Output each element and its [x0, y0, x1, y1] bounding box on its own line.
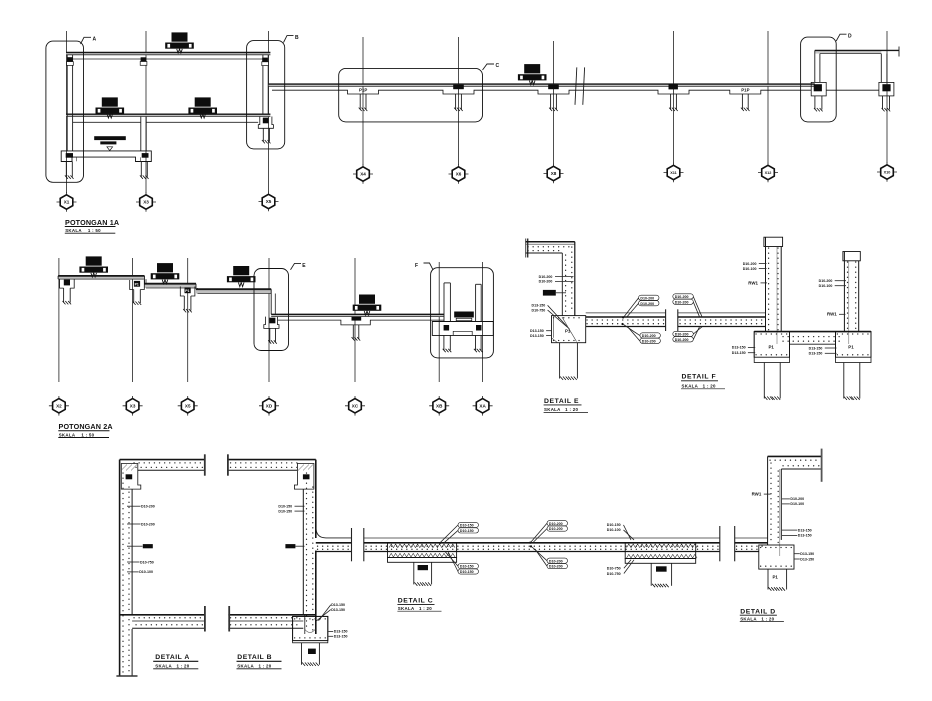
detail E slab left part [586, 313, 666, 327]
upper right beam [815, 47, 899, 57]
detail B vertical wall [303, 460, 316, 634]
SECTION: DETAIL A B [116, 454, 351, 676]
svg-text:SKALA 1 : 20: SKALA 1 : 20 [155, 663, 189, 668]
svg-text:B: B [295, 35, 299, 41]
column stub X6 [453, 85, 464, 111]
grid line XD [268, 258, 270, 382]
column below X3 [141, 117, 146, 151]
detail F footing band [754, 332, 871, 345]
stadium callout LL pair [624, 325, 661, 344]
detail F wall1 labels [743, 262, 767, 285]
callout region E [254, 263, 306, 351]
hexagon X1 [57, 192, 77, 212]
svg-text:D10-100: D10-100 [743, 267, 757, 271]
joint pedestal stub at XD beam4 [264, 317, 279, 344]
column stub X8 [548, 85, 559, 111]
slab break marks right [720, 526, 735, 561]
svg-text:D10-200: D10-200 [549, 559, 563, 563]
svg-text:P1: P1 [773, 574, 779, 579]
detail B corner joint [294, 464, 314, 490]
svg-text:D10-200: D10-200 [790, 497, 804, 501]
detail B right slab stub [316, 528, 352, 552]
detail E labels D13-150 D10-750 [532, 304, 570, 329]
machine M1 on top beam [165, 32, 194, 53]
svg-text:D10-200: D10-200 [549, 565, 563, 569]
callout region A [46, 37, 97, 183]
svg-text:DETAIL B: DETAIL B [237, 654, 272, 661]
svg-text:D13-150: D13-150 [732, 351, 746, 355]
svg-text:D10-200: D10-200 [675, 295, 689, 299]
column cap 2 P1 [130, 280, 145, 305]
SECTION: POTONGAN 1A [46, 31, 899, 233]
grid line X1 [66, 31, 68, 193]
svg-text:X3: X3 [130, 404, 136, 409]
svg-text:POTONGAN 1A: POTONGAN 1A [65, 218, 119, 227]
F frame right column [476, 284, 482, 321]
svg-text:DETAIL D: DETAIL D [740, 608, 776, 615]
stadium callouts C upper-left [439, 522, 478, 544]
svg-text:D13-150: D13-150 [800, 557, 814, 561]
svg-text:D10-200: D10-200 [141, 505, 155, 509]
svg-text:SKALA 1 : 20: SKALA 1 : 20 [398, 606, 432, 611]
svg-text:D13-150: D13-150 [809, 346, 823, 350]
hexagon XD [259, 396, 279, 416]
svg-text:D13-150: D13-150 [334, 635, 348, 639]
callout region D [801, 33, 852, 122]
svg-text:P1: P1 [135, 283, 139, 287]
title DETAIL F [681, 374, 725, 389]
svg-text:D10-200: D10-200 [675, 333, 689, 337]
beam soffit between D columns [826, 89, 879, 91]
detail A black label [127, 544, 153, 548]
svg-text:X3: X3 [143, 200, 149, 205]
detail A vertical wall [116, 460, 137, 676]
grid line X10 [886, 31, 888, 163]
beam 1 [58, 276, 144, 279]
machine M3 on mid beam [188, 97, 217, 118]
joint, pedestal and stub at X5 mid beam [258, 117, 273, 144]
svg-text:XD: XD [266, 404, 273, 409]
detail D top wall [768, 449, 822, 482]
svg-text:D10-200: D10-200 [549, 522, 563, 526]
grid line X5 [268, 31, 270, 193]
mid beam soffit line left room [73, 121, 141, 123]
machine bar in F frame [454, 312, 474, 321]
stub under panel 2 [651, 563, 671, 587]
hexagon X4 [353, 164, 373, 184]
column at X5 [262, 55, 269, 114]
detail A label D10-750 [127, 560, 154, 564]
svg-text:SKALA 1 : 20: SKALA 1 : 20 [682, 383, 716, 388]
detail E footing P1 [552, 316, 586, 343]
title POTONGAN 2A [58, 422, 112, 438]
svg-text:POTONGAN 2A: POTONGAN 2A [59, 422, 113, 431]
detail F mid labels [809, 346, 837, 355]
svg-text:D10-200: D10-200 [642, 339, 656, 343]
svg-text:X6: X6 [456, 172, 462, 177]
callout region F [415, 263, 493, 358]
stadium callout UL pair [624, 295, 659, 317]
title POTONGAN 1A [65, 218, 119, 233]
grid line X4 [362, 37, 364, 165]
step beam2-beam3 [196, 284, 198, 294]
hexagon X3b [123, 396, 143, 416]
svg-text:X8: X8 [551, 171, 557, 176]
svg-text:A: A [93, 37, 97, 43]
hexagon XA [473, 396, 493, 416]
D column 2 [879, 54, 894, 112]
machine M7 on beam3 [227, 266, 256, 287]
svg-text:SKALA 1 : 50: SKALA 1 : 50 [59, 433, 95, 438]
machine M8 on beam4 [353, 295, 382, 316]
stadium callouts C upper-right [529, 521, 567, 544]
detail F wall2 labels [819, 279, 846, 317]
detail B footing stub [302, 643, 320, 666]
svg-text:D10-200: D10-200 [819, 279, 833, 283]
detail E footing stub [560, 343, 578, 380]
callout region C [339, 63, 500, 122]
hexagon X3 [136, 192, 156, 212]
section break marks [575, 67, 585, 104]
detail A label D10-200 a [127, 505, 155, 509]
beam 3 [196, 289, 271, 293]
footing band bottom left [61, 151, 151, 162]
title DETAIL E [544, 398, 588, 413]
svg-text:DETAIL C: DETAIL C [398, 598, 434, 605]
column cap 3 P1 [180, 287, 195, 313]
column at X1 [67, 55, 74, 151]
hexagon X5 [259, 192, 279, 212]
svg-text:P1: P1 [185, 289, 189, 293]
column stub P1P right [741, 88, 750, 111]
detail B labels D10-150 [278, 505, 304, 514]
grid line X11 [673, 31, 675, 164]
joint square at X3 top beam [141, 57, 147, 63]
detail F pad 2 [836, 332, 872, 363]
svg-text:XA: XA [479, 404, 486, 409]
svg-text:F: F [415, 263, 418, 269]
detail E labels D13-150 pair [530, 329, 552, 338]
svg-text:D13-150: D13-150 [809, 352, 823, 356]
grid line X8 [553, 41, 555, 165]
grid line XA [482, 262, 484, 382]
mid beam soffit line right [146, 121, 258, 123]
svg-text:DETAIL A: DETAIL A [155, 654, 189, 661]
svg-text:D10-750: D10-750 [607, 572, 621, 576]
detail A label D10-200 b [127, 522, 155, 526]
column cap 1 [60, 279, 75, 304]
stub under footing left [65, 162, 74, 179]
svg-text:DETAIL F: DETAIL F [682, 374, 717, 381]
grid line X5b [187, 258, 189, 382]
detail A corner joint [121, 464, 141, 490]
title DETAIL D [740, 608, 784, 621]
stadium callout LR pair [673, 327, 702, 342]
svg-text:P1P: P1P [359, 88, 367, 93]
hexagon X5b [178, 396, 198, 416]
beam4 soffit with notch at XC [278, 320, 444, 325]
hexagon X11 [664, 163, 684, 183]
svg-text:D10-750: D10-750 [532, 308, 546, 312]
svg-text:D10-750: D10-750 [140, 560, 154, 564]
D column 1 [811, 50, 826, 111]
detail F wall 1 [764, 237, 783, 344]
detail B footing [293, 616, 328, 642]
svg-text:D10-200: D10-200 [141, 522, 155, 526]
detail E vertical wall [562, 242, 575, 316]
F footing stub left [443, 335, 452, 352]
svg-text:D13-150: D13-150 [331, 608, 345, 612]
svg-text:P1: P1 [565, 329, 571, 334]
svg-text:D10-200: D10-200 [549, 527, 563, 531]
drop panel 2 [625, 543, 697, 564]
hexagon X12 [758, 163, 778, 183]
detail A mid wall [120, 606, 206, 632]
detail D RW1 label [752, 492, 771, 497]
grid line XB [438, 262, 440, 382]
detail D labels lower-left of panel2 [607, 560, 634, 576]
svg-text:X5: X5 [266, 199, 272, 204]
svg-text:D10-150: D10-150 [460, 529, 474, 533]
callout region B [247, 35, 299, 149]
svg-text:D10-200: D10-200 [743, 262, 757, 266]
title DETAIL A [153, 654, 198, 669]
svg-text:SKALA 1 : 50: SKALA 1 : 50 [65, 228, 101, 233]
svg-text:X4: X4 [360, 172, 366, 177]
machine M6 on beam2 [151, 263, 180, 284]
svg-text:D13-150: D13-150 [334, 630, 348, 634]
hexagon X8 [544, 164, 564, 184]
svg-text:D10-200: D10-200 [539, 280, 553, 284]
svg-text:D10-150: D10-150 [278, 505, 292, 509]
svg-text:D13-150: D13-150 [532, 304, 546, 308]
svg-text:D10-200: D10-200 [640, 302, 654, 306]
svg-text:D10-150: D10-150 [460, 570, 474, 574]
detail D labels D10-200 D10-100 [782, 497, 804, 506]
detail B mid wall [228, 606, 315, 632]
mid beam [66, 114, 270, 116]
detail B top wall [228, 454, 316, 475]
detail B labels D13-150 upper [317, 603, 345, 621]
svg-text:D10-150: D10-150 [278, 509, 292, 513]
grid line X2 [58, 258, 60, 382]
slab break marks [666, 309, 678, 331]
svg-text:C: C [496, 63, 500, 69]
F frame footing band [432, 322, 493, 336]
long right beam [269, 84, 815, 86]
svg-text:XC: XC [352, 404, 359, 409]
svg-text:D10-100: D10-100 [790, 502, 804, 506]
detail B labels D13-150 lower [328, 630, 347, 639]
detail D vertical wall [768, 456, 782, 556]
detail E black label [543, 290, 566, 296]
svg-text:D13-150: D13-150 [732, 346, 746, 350]
svg-text:D10-100: D10-100 [819, 284, 833, 288]
svg-text:P1: P1 [848, 345, 854, 350]
drop panel 1 [388, 543, 457, 563]
hexagon X6 [449, 164, 469, 184]
title DETAIL B [237, 654, 282, 669]
step beam3-beam4 [271, 289, 275, 316]
detail D slab piece [735, 538, 768, 552]
svg-text:D10-100: D10-100 [139, 570, 153, 574]
beam soffit line with column notches [272, 90, 811, 94]
stub under panel 1 [414, 562, 432, 586]
svg-text:D13-150: D13-150 [798, 534, 812, 538]
F footing stub right [474, 335, 483, 352]
svg-text:RW1: RW1 [827, 312, 837, 317]
SECTION: DETAIL E F [526, 237, 872, 412]
svg-text:D10-200: D10-200 [642, 334, 656, 338]
svg-text:X2: X2 [56, 404, 62, 409]
svg-text:X1: X1 [64, 200, 70, 205]
svg-text:D13-150: D13-150 [798, 528, 812, 532]
slab break marks left [352, 528, 364, 561]
detail A label D10-100 [127, 570, 153, 574]
svg-text:D10-200: D10-200 [675, 300, 689, 304]
detail F stub 1 [764, 363, 780, 400]
hexagon XC [345, 396, 365, 416]
svg-text:RW1: RW1 [748, 280, 758, 285]
detail E slab right part [621, 313, 765, 327]
svg-text:X10: X10 [884, 171, 891, 175]
F frame left column [444, 283, 450, 322]
detail F pad 1 [754, 332, 789, 363]
detail E left labels D10-200 [539, 275, 574, 284]
detail D labels D13-150 [782, 528, 812, 537]
svg-text:D: D [848, 33, 852, 39]
svg-text:P1: P1 [769, 345, 775, 350]
column stub X4 P1P [359, 88, 368, 111]
detail F stub 2 [844, 363, 860, 400]
svg-text:D13-150: D13-150 [530, 329, 544, 333]
svg-text:X5: X5 [185, 404, 191, 409]
svg-text:D13-150: D13-150 [530, 334, 544, 338]
svg-text:D10-150: D10-150 [607, 523, 621, 527]
step beam1-beam2 [145, 276, 147, 288]
detail D footing [759, 545, 794, 569]
svg-text:RW1: RW1 [752, 492, 762, 497]
title DETAIL C [397, 598, 441, 612]
grid line X3b [132, 258, 134, 382]
SECTION: POTONGAN 2A [49, 256, 494, 437]
detail E top wall cut end [526, 239, 528, 258]
hexagon XB [429, 396, 449, 416]
machine M5 on beam1 [79, 256, 108, 277]
detail D footing stub P1 [768, 569, 787, 591]
machine M2 on mid beam [96, 97, 125, 118]
SECTION: DETAIL C D [352, 449, 822, 622]
joint and stub at XC beam4 [352, 317, 362, 341]
stadium callouts C lower-left [445, 552, 479, 575]
detail F wall 2 [843, 252, 860, 345]
svg-text:SKALA 1 : 20: SKALA 1 : 20 [544, 407, 578, 412]
svg-text:D10-200: D10-200 [539, 275, 553, 279]
hexagon X10 [877, 162, 897, 182]
grid line XC [354, 258, 356, 382]
svg-text:D10-150: D10-150 [460, 565, 474, 569]
beam 2 [145, 284, 197, 288]
svg-text:D10-150: D10-150 [460, 524, 474, 528]
svg-text:D10-100: D10-100 [607, 528, 621, 532]
hexagon X2 [49, 396, 69, 416]
ground level symbol [94, 136, 126, 150]
svg-text:X12: X12 [765, 171, 772, 175]
detail B black label [285, 544, 304, 548]
top beam soffit line [73, 58, 263, 60]
svg-text:D10-200: D10-200 [675, 338, 689, 342]
svg-text:XB: XB [436, 404, 443, 409]
grid line X3 [145, 31, 147, 193]
svg-text:DETAIL E: DETAIL E [544, 398, 579, 405]
detail C slab [364, 538, 720, 552]
svg-text:X11: X11 [670, 171, 677, 175]
svg-text:SKALA 1 : 20: SKALA 1 : 20 [740, 616, 774, 621]
grid line X12 [767, 31, 769, 164]
top beam [66, 52, 270, 54]
svg-text:P1P: P1P [741, 88, 749, 93]
stub under footing right [140, 162, 149, 179]
svg-text:D10-200: D10-200 [640, 296, 654, 300]
machine M4 on long beam [518, 64, 547, 85]
svg-text:D13-150: D13-150 [800, 552, 814, 556]
detail D labels upper-left of panel2 [607, 523, 634, 540]
detail F left labels [732, 346, 755, 355]
svg-text:D10-750: D10-750 [607, 567, 621, 571]
detail E top wall [526, 242, 575, 253]
svg-text:D13-150: D13-150 [331, 603, 345, 607]
detail D labels right of footing [794, 552, 814, 561]
stadium callouts C lower-right [530, 545, 568, 568]
beam 4 [271, 314, 444, 316]
detail A top wall [120, 454, 206, 475]
grid line X6 [458, 37, 460, 165]
svg-text:SKALA 1 : 20: SKALA 1 : 20 [237, 663, 271, 668]
column stub X11 [669, 84, 678, 111]
stadium callout UR pair [673, 294, 702, 317]
